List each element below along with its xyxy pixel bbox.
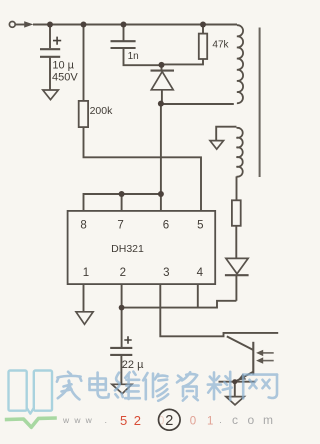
svg-text:www: www [62,415,97,425]
svg-text:0: 0 [190,415,196,427]
svg-text:8: 8 [80,220,86,232]
svg-text:200k: 200k [90,105,114,117]
svg-text:2: 2 [134,413,141,428]
svg-text:4: 4 [197,267,204,279]
svg-text:2: 2 [165,413,173,429]
svg-text:10 µ: 10 µ [52,60,74,72]
svg-text:1: 1 [83,267,89,279]
svg-text:22 µ: 22 µ [122,359,144,371]
svg-text:7: 7 [117,220,123,232]
svg-text:m: m [263,413,273,427]
svg-text:c: c [232,413,238,427]
svg-text:6: 6 [163,220,169,232]
svg-text:1: 1 [207,415,213,427]
svg-text:3: 3 [163,267,169,279]
svg-text:DH321: DH321 [111,243,144,255]
svg-text:450V: 450V [52,72,78,84]
svg-text:.: . [105,415,108,425]
svg-text:47k: 47k [212,40,229,51]
svg-text:.: . [219,415,222,425]
svg-text:5: 5 [120,413,127,428]
svg-text:1n: 1n [128,51,139,62]
svg-text:o: o [248,413,255,427]
svg-text:2: 2 [120,267,126,279]
svg-text:5: 5 [197,220,203,232]
